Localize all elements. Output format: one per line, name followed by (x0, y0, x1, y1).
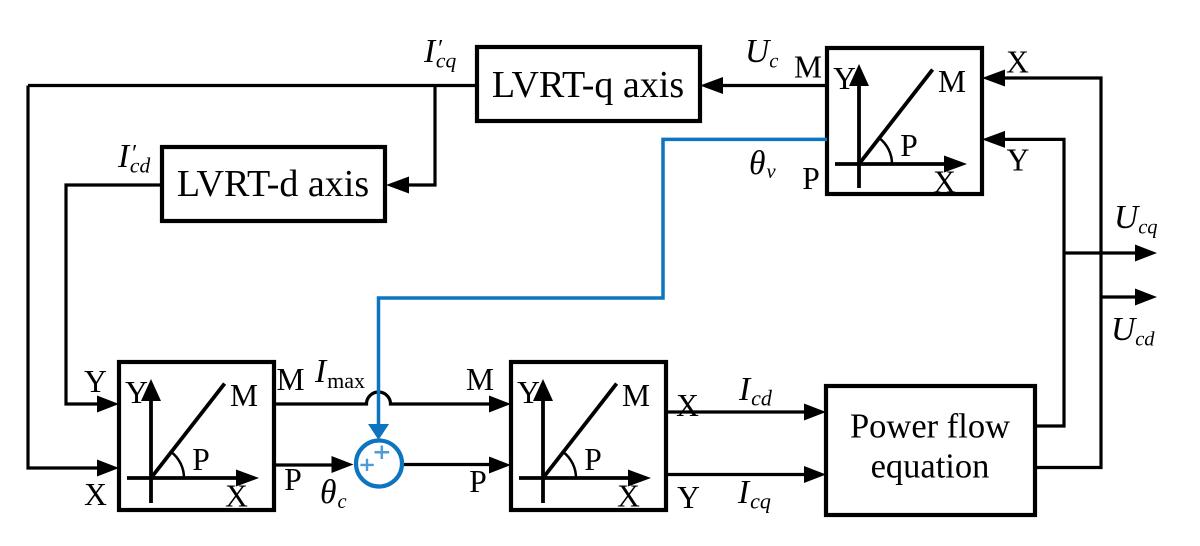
svg-text:P: P (469, 464, 487, 499)
svg-text:LVRT-d axis: LVRT-d axis (177, 163, 369, 205)
svg-text:X: X (84, 477, 107, 512)
U1 vector M line (859, 70, 933, 164)
wire branch down to LVRT-d input (408, 86, 435, 186)
arrow into U2 Y input (97, 396, 119, 413)
U3 X axis (519, 476, 631, 480)
U2 box border (119, 362, 274, 510)
wire Icq from U3 Y output to Power flow equation (666, 473, 807, 476)
svg-text:P: P (802, 161, 820, 196)
arrow into Power flow equation bottom input (804, 466, 826, 483)
svg-text:P: P (900, 128, 918, 163)
block LVRT-d axis (162, 147, 385, 221)
LVRT-d axis box border (162, 147, 385, 221)
converter block U1 (voltage magnitude/angle calculation, top right) (827, 48, 982, 200)
arrow into LVRT-d axis (386, 177, 409, 194)
svg-text:Y: Y (517, 375, 540, 410)
arrow into U2 X input (97, 460, 119, 477)
U1 angle arc P (879, 138, 892, 164)
svg-text:M: M (230, 378, 258, 413)
wire summer to U3 P input (402, 463, 492, 466)
U3 Y axis (541, 389, 545, 503)
U2 Y axis (149, 389, 153, 503)
svg-text:Y: Y (84, 364, 107, 399)
blue arrow into summer (368, 424, 389, 440)
arrow into LVRT-q axis (700, 77, 723, 94)
U2 angle arc P (171, 452, 184, 478)
wire Uc from U1 M output to LVRT-q axis input (722, 84, 827, 87)
U3 angle arc P (563, 452, 576, 478)
svg-text:M: M (938, 64, 966, 99)
arrow into Power flow equation top input (804, 404, 826, 421)
svg-text:X: X (933, 165, 956, 200)
arrow Ucd output (1135, 289, 1157, 306)
svg-text:X: X (676, 388, 699, 423)
U1 X axis (835, 162, 947, 166)
arrow Ucq output (1135, 245, 1157, 262)
svg-text:P: P (284, 462, 302, 497)
U2 X axis (127, 476, 239, 480)
plus sign (left) (360, 459, 373, 471)
svg-text:Y: Y (125, 375, 148, 410)
svg-text:M: M (794, 50, 822, 85)
svg-text:Power flow: Power flow (850, 408, 1010, 446)
svg-text:P: P (192, 442, 210, 477)
wire I'cq bus (LVRT-q output to far left) (28, 84, 477, 87)
svg-text:Y: Y (677, 480, 700, 515)
svg-text:M: M (276, 362, 304, 397)
arrow into U3 P input (489, 457, 511, 474)
wire Ucd feedback: Power flow bottom output up to U1 X input (1003, 78, 1101, 468)
wire far-left vertical down to U2 X input (28, 86, 99, 469)
converter block U3 (current components calculation, bottom middle) (511, 362, 666, 514)
arrow into U1 Y input (982, 131, 1005, 148)
wire I'cd from LVRT-d output to U2 Y input (66, 185, 162, 404)
U2 vector M line (151, 384, 225, 478)
U1 box border (827, 48, 982, 194)
svg-text:equation: equation (871, 448, 990, 486)
svg-text:LVRT-q axis: LVRT-q axis (492, 64, 684, 106)
svg-text:M: M (622, 378, 650, 413)
wire Imax from U2 M output to U3 M input, with hop (274, 392, 492, 404)
wire Ucq feedback: Power flow top output up to U1 Y input (1003, 139, 1064, 426)
svg-text:Y: Y (1007, 143, 1030, 178)
svg-text:X: X (225, 479, 248, 514)
converter block U2 (current magnitude/angle calculation, bottom left) (119, 362, 274, 514)
Power flow equation box border (826, 386, 1035, 515)
svg-text:Y: Y (833, 61, 856, 96)
U1 Y axis (857, 74, 861, 188)
svg-text:X: X (617, 479, 640, 514)
plus sign (upper) (375, 446, 390, 460)
wire Icd from U3 X output to Power flow equation (666, 410, 807, 413)
U3 box border (511, 362, 666, 510)
summer S1 (angle summation junction) (356, 441, 402, 487)
wire theta-v (blue) from U1 P output to summer (379, 139, 828, 426)
arrow into U3 M input (489, 396, 511, 413)
svg-text:M: M (466, 362, 494, 397)
U3 vector M line (543, 384, 617, 478)
wire Ucq output branch (1064, 251, 1136, 254)
wire P from U2 to summer (274, 463, 333, 466)
wire Ucd output branch (1101, 295, 1136, 298)
arrow into summer (332, 456, 354, 473)
block Power flow equation (826, 386, 1035, 515)
LVRT-q axis box border (477, 47, 700, 121)
svg-text:X: X (1006, 45, 1029, 80)
svg-text:P: P (584, 442, 602, 477)
arrow into U1 X input (982, 70, 1005, 87)
block LVRT-q axis (477, 47, 700, 121)
